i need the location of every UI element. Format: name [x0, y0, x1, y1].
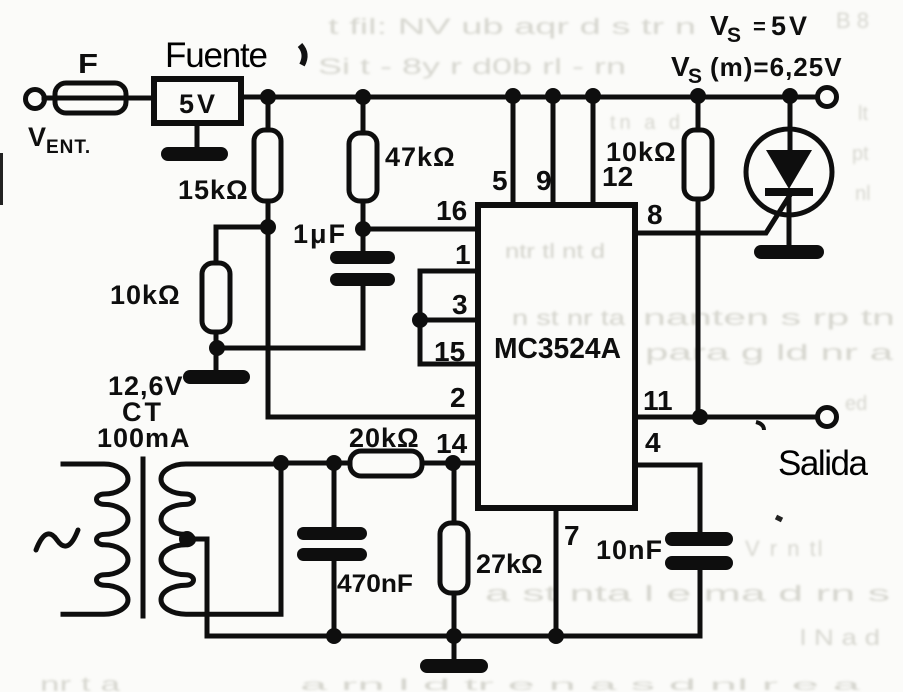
terminal Vs (top right): [818, 88, 837, 107]
svg-text:5V: 5V: [179, 89, 218, 119]
capacitor 1uF: [330, 251, 395, 264]
svg-text:10kΩ: 10kΩ: [110, 280, 181, 310]
wire: rail down to 47k: [361, 97, 366, 133]
pin 5 wire: [511, 96, 516, 205]
svg-text:B 8: B 8: [836, 8, 869, 33]
node dot (15k/10k junction): [260, 219, 276, 235]
ground (bottom): [420, 659, 488, 673]
node dot pin14: [445, 455, 461, 471]
node dot pin7 bottom: [548, 628, 564, 644]
diode cathode bar: [765, 188, 813, 196]
svg-text:(m)=6,25V: (m)=6,25V: [710, 52, 843, 82]
wire: rail into diode: [788, 96, 793, 151]
wire: pin 7: [554, 508, 559, 636]
resistor 10k right: [684, 130, 712, 199]
svg-text:11: 11: [643, 385, 673, 416]
wire: 10k bottom to ground and right to 1uF: [216, 332, 363, 370]
diode circle: [746, 129, 832, 215]
node dot on rail (pin5): [505, 88, 521, 104]
svg-text:nl: nl: [855, 183, 871, 205]
svg-text:F: F: [78, 48, 98, 79]
svg-text:4: 4: [645, 427, 661, 458]
transformer T1 core: [141, 459, 146, 616]
ground (below 5V box): [161, 147, 228, 161]
capacitor 10nF: [665, 532, 733, 546]
node dot on rail (10k right): [690, 88, 706, 104]
ground (below 10k): [183, 370, 250, 384]
artifact comma: [756, 422, 764, 430]
wire: center tap to bottom rail: [187, 539, 207, 636]
svg-text:9: 9: [536, 165, 552, 196]
pin 9 wire: [551, 96, 556, 205]
wire: 20k to pin 14: [422, 461, 478, 466]
svg-text:ENT.: ENT.: [46, 137, 91, 158]
wire: pin 1 to loop: [420, 271, 478, 364]
artifact mark: [300, 45, 305, 65]
wire: ground stub bottom: [452, 636, 457, 659]
svg-text:t fil: NV ub aqr d s tr n: t fil: NV ub aqr d s tr n: [328, 14, 696, 39]
resistor 27k: [440, 523, 468, 593]
wire: pin 16: [363, 227, 478, 232]
svg-text:=: =: [753, 14, 766, 39]
node dot pin3 loop: [412, 312, 428, 328]
svg-text:27kΩ: 27kΩ: [476, 549, 543, 579]
wire: 470n stubs: [332, 463, 337, 636]
svg-text:para g ld nr a: para g ld nr a: [645, 340, 894, 365]
resistor 10k left: [202, 263, 230, 332]
regulator box 5V (Fuente): [154, 79, 241, 123]
node dot below 10k: [209, 340, 225, 356]
wire: diode to ground: [787, 196, 792, 246]
svg-text:nr t a: nr t a: [40, 674, 122, 692]
wire: terminal to fuse: [44, 96, 154, 101]
svg-text:8: 8: [647, 199, 663, 230]
resistor 47k: [349, 133, 377, 201]
svg-text:Salida: Salida: [778, 444, 869, 483]
svg-text:100mA: 100mA: [97, 423, 191, 453]
svg-text:nanten s rp tn: nanten s rp tn: [643, 305, 895, 330]
svg-text:7: 7: [564, 520, 580, 551]
wire: jog to 10k top: [216, 227, 268, 263]
ground (diode): [754, 245, 824, 259]
diode triangle: [766, 150, 812, 189]
terminal Vent: [26, 90, 45, 109]
node dot secondary top: [273, 455, 289, 471]
node dot pin11: [692, 409, 708, 425]
wire: rail to 10k right: [696, 96, 701, 130]
node dot center tap: [179, 531, 195, 547]
wire: pin 11 to Salida: [635, 415, 818, 420]
node dot on rail (47k): [355, 89, 371, 105]
node dot 470n top: [326, 455, 342, 471]
wire: rail down to 15k: [266, 97, 271, 130]
svg-text:10kΩ: 10kΩ: [606, 137, 677, 167]
svg-text:S: S: [688, 65, 702, 88]
svg-text:1μF: 1μF: [293, 219, 347, 249]
pin 12 wire: [591, 96, 596, 205]
wire: pin 4 to 10nF: [635, 465, 700, 532]
capacitor 470nF: [297, 527, 367, 540]
svg-text:Si t - 8y r d0b rl - rn: Si t - 8y r d0b rl - rn: [318, 54, 626, 79]
svg-text:ed: ed: [845, 393, 867, 415]
svg-text:n st nr ta: n st nr ta: [512, 307, 625, 330]
resistor 15k: [254, 130, 281, 201]
svg-text:2: 2: [450, 382, 466, 413]
svg-text:lt: lt: [858, 103, 868, 125]
svg-text:S: S: [727, 24, 741, 47]
bottom rail: [207, 634, 700, 639]
AC source tilde: [36, 530, 78, 550]
wire: secondary node to 20k: [281, 461, 350, 466]
edge artifact: [0, 153, 3, 205]
wire: pin 8 to diode: [635, 195, 790, 233]
svg-text:a st nta l e ma d rn s: a st nta l e ma d rn s: [485, 581, 890, 606]
node dot 470n bottom: [326, 628, 342, 644]
wire: 27k stubs: [452, 463, 457, 636]
wire: 15k down to pin2 level: [268, 201, 478, 417]
svg-text:V r n tl: V r n tl: [745, 536, 825, 561]
transformer primary winding: [63, 464, 128, 614]
wire: 5V box to ground: [195, 123, 200, 149]
resistor 20k: [350, 451, 422, 476]
wire: 47k to pin16 node: [361, 201, 366, 251]
svg-text:tn a d: tn a d: [610, 112, 684, 134]
artifact tick: [776, 517, 782, 520]
svg-text:470nF: 470nF: [337, 570, 413, 598]
svg-text:pt: pt: [852, 143, 869, 165]
fuse F: [55, 83, 126, 113]
node dot (pin16 node): [355, 221, 371, 237]
node dot 27k bottom: [446, 628, 462, 644]
svg-text:a rn l d tr e n a s: a rn l d tr e n a s d nl r e a: [300, 677, 860, 692]
svg-text:1: 1: [455, 239, 471, 270]
wire: 10nF bottom stub: [698, 570, 703, 636]
svg-text:5: 5: [492, 165, 508, 196]
node dot on rail (pin9): [545, 88, 561, 104]
svg-text:5V: 5V: [771, 11, 810, 41]
svg-text:47kΩ: 47kΩ: [385, 142, 456, 172]
wire: pin 3: [420, 318, 478, 323]
svg-text:MC3524A: MC3524A: [494, 333, 621, 365]
terminal Salida: [818, 408, 837, 427]
svg-text:ntr tl nt d: ntr tl nt d: [505, 241, 605, 263]
transformer secondary winding: [161, 464, 281, 614]
svg-text:3: 3: [452, 289, 468, 320]
node dot on rail (pin12): [585, 88, 601, 104]
node dot on rail (15k): [260, 89, 276, 105]
IC U1 MC3524A: [478, 205, 635, 508]
node dot on rail (diode): [782, 88, 798, 104]
wire: top supply rail: [241, 95, 818, 100]
svg-text:l N a d: l N a d: [800, 625, 880, 650]
wire: 10k right down to pin11: [696, 199, 701, 417]
wire: 1uF bottom to 10k node: [361, 286, 366, 348]
svg-text:14: 14: [436, 428, 468, 459]
svg-text:V: V: [28, 122, 46, 152]
svg-text:20kΩ: 20kΩ: [349, 423, 420, 453]
svg-text:16: 16: [436, 195, 467, 226]
svg-text:10nF: 10nF: [596, 535, 663, 565]
svg-text:Fuente: Fuente: [165, 36, 268, 75]
svg-text:15kΩ: 15kΩ: [178, 175, 249, 205]
